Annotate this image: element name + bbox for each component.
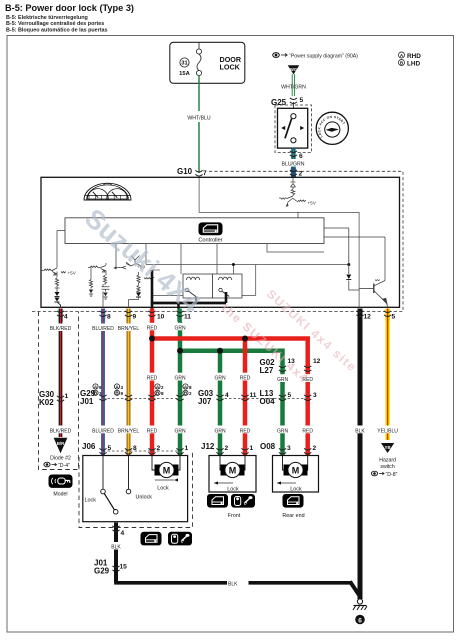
- svg-text:Controller: Controller: [198, 238, 222, 244]
- wire BLK pin12 down to ground: [358, 322, 363, 600]
- controller pin 10 terminal: [150, 309, 165, 322]
- svg-text:G29: G29: [94, 567, 110, 576]
- svg-text:+5V: +5V: [308, 201, 317, 206]
- svg-text:LOCK: LOCK: [220, 63, 241, 72]
- connector J01/G29 pin 15: [94, 559, 127, 576]
- svg-text:3: 3: [121, 385, 124, 390]
- door icon O08 rear: [283, 494, 304, 508]
- svg-text:M: M: [292, 465, 300, 475]
- svg-text:“Power supply diagram” (90A): “Power supply diagram” (90A): [289, 54, 358, 60]
- svg-text:B-5: Verrouillage centralisé d: B-5: Verrouillage centralisé des portes: [6, 21, 104, 27]
- svg-text:Hazard: Hazard: [379, 458, 396, 464]
- svg-text:Diode #2: Diode #2: [50, 456, 71, 462]
- svg-text:6: 6: [358, 617, 362, 624]
- connector G25 pin 5: [271, 97, 304, 107]
- svg-text:YB: YB: [385, 445, 391, 450]
- J12 motor box: [209, 456, 256, 493]
- svg-text:15A: 15A: [179, 71, 190, 77]
- svg-text:4: 4: [64, 314, 68, 321]
- J06 internal wires: [103, 456, 180, 490]
- svg-text:8: 8: [133, 445, 137, 452]
- svg-text:L27: L27: [260, 366, 274, 375]
- LHD legend: [399, 60, 421, 68]
- eye ref D-4: [44, 462, 70, 469]
- svg-text:10: 10: [157, 314, 165, 321]
- svg-text:2: 2: [157, 445, 161, 452]
- switch contacts and blade: [285, 114, 296, 143]
- svg-text:B-5: Bloqueo automático de las: B-5: Bloqueo automático de las puertas: [6, 28, 108, 34]
- svg-text:5: 5: [392, 314, 396, 321]
- connector J12 row: [201, 442, 254, 454]
- instrument cluster icon: [84, 183, 131, 200]
- internal pin9 circuit: [114, 244, 154, 308]
- svg-text:BRN/YEL: BRN/YEL: [118, 428, 140, 434]
- RHD legend: [399, 52, 422, 60]
- ground number 6: [355, 615, 365, 625]
- label BLK under J06: [110, 542, 123, 551]
- internal relay feed line: [146, 244, 349, 296]
- svg-text:“D-8”: “D-8”: [386, 472, 398, 478]
- svg-text:12: 12: [313, 358, 321, 365]
- label RED below pin10: [146, 323, 159, 332]
- svg-text:5: 5: [108, 445, 112, 452]
- connector L13/O04 pins 5 3: [260, 389, 318, 406]
- svg-text:BLU/RED: BLU/RED: [92, 428, 114, 434]
- wire BLU/RED pin8 down: [101, 322, 105, 456]
- svg-text:J12: J12: [201, 442, 215, 451]
- svg-text:B/R: B/R: [57, 441, 64, 446]
- controller pin 8 terminal: [101, 309, 111, 322]
- svg-text:2: 2: [189, 391, 192, 396]
- pin 6 of switch: [290, 151, 303, 160]
- label GRN below pin11: [174, 323, 187, 332]
- door icon under J06: [141, 532, 162, 546]
- connector G02/L27 pins 13 12: [260, 358, 321, 375]
- svg-text:B-5: Power door lock (Type 3): B-5: Power door lock (Type 3): [5, 3, 134, 13]
- svg-text:3: 3: [313, 392, 317, 399]
- svg-text:9: 9: [121, 391, 124, 396]
- svg-text:RHD: RHD: [407, 53, 421, 60]
- junction dots green line: [177, 348, 183, 354]
- svg-text:4: 4: [121, 530, 125, 537]
- svg-text:BLU/RED: BLU/RED: [92, 326, 114, 332]
- ground arrows pin8 area: [89, 290, 93, 294]
- svg-text:BRN/YEL: BRN/YEL: [118, 326, 140, 332]
- svg-text:9: 9: [133, 314, 137, 321]
- J12 motor arrow lock: [214, 481, 239, 492]
- label BLU/GRN: [281, 159, 305, 167]
- O08 lock motor M: [284, 462, 308, 477]
- svg-text:GRN: GRN: [214, 376, 226, 382]
- svg-text:BLK: BLK: [355, 428, 365, 434]
- J06 pin 4 below: [112, 523, 124, 583]
- svg-text:K02: K02: [39, 398, 54, 407]
- junction dots red line: [149, 336, 155, 342]
- triangle YB hazard: [381, 443, 394, 453]
- svg-text:8: 8: [107, 314, 111, 321]
- J06 key cylinder and motor box: [83, 456, 188, 522]
- internal right output: diode chain: [324, 228, 385, 290]
- svg-text:1: 1: [250, 445, 254, 452]
- svg-text:11: 11: [250, 392, 257, 399]
- relay K1 box: [183, 274, 213, 298]
- thick output bus to pins 10 11: [151, 270, 226, 309]
- svg-text:M: M: [163, 465, 171, 475]
- O08 motor box: [273, 456, 319, 493]
- relay K2 box: [213, 274, 243, 298]
- svg-text:7: 7: [203, 170, 207, 177]
- label BRN/YEL upper: [117, 324, 140, 333]
- svg-text:G25: G25: [271, 98, 287, 107]
- wire WHT/BLU from fuse to G10: [198, 76, 200, 173]
- wire BLU/GRN below switch: [291, 148, 295, 168]
- connector J06 row: [82, 442, 189, 454]
- ignition key symbol: [316, 112, 348, 144]
- svg-text:Lock: Lock: [85, 498, 97, 504]
- diode #2 triangle BR: [54, 438, 68, 453]
- svg-text:O08: O08: [260, 442, 276, 451]
- connector O08 row: [260, 442, 317, 454]
- ground bus wire BLK bottom: [114, 571, 360, 597]
- svg-text:BLK: BLK: [111, 545, 121, 551]
- model icon: [49, 475, 73, 488]
- diode at pin9 chain: [136, 286, 141, 300]
- connector G03/J07 pins 4 11: [198, 389, 308, 406]
- svg-text:Front: Front: [228, 513, 241, 519]
- svg-text:Lock: Lock: [157, 486, 169, 492]
- svg-text:Rear end: Rear end: [282, 513, 304, 519]
- J06 motor arrow lock: [155, 478, 178, 491]
- wire RED pin10 down and branch: [152, 322, 308, 456]
- svg-text:WHT/BLU: WHT/BLU: [187, 116, 211, 122]
- svg-text:RED: RED: [147, 376, 158, 382]
- label BLK/RED upper: [49, 324, 72, 333]
- svg-text:31: 31: [181, 61, 187, 67]
- switch direction arrows: [281, 126, 304, 130]
- dashed option box G30: [39, 312, 79, 470]
- J06 lock motor M: [155, 462, 179, 477]
- controller pin 12 terminal: [358, 309, 372, 322]
- svg-text:RED: RED: [147, 428, 158, 434]
- controller pin 9 terminal: [126, 309, 136, 322]
- internal wire from pin7: [199, 178, 359, 308]
- junction dots on feed line: [232, 263, 235, 266]
- fuse box: [170, 42, 245, 83]
- svg-text:M: M: [229, 465, 237, 475]
- controller pin 5 terminal: [385, 309, 395, 322]
- svg-text:GRN: GRN: [277, 377, 289, 383]
- svg-text:O04: O04: [260, 397, 276, 406]
- svg-text:2: 2: [161, 385, 164, 390]
- svg-text:WG: WG: [290, 67, 297, 72]
- label DOOR LOCK: [220, 55, 242, 72]
- relay K1 coil: [187, 277, 200, 280]
- svg-text:2: 2: [313, 445, 317, 452]
- connector G30/K02 pin 1: [39, 390, 69, 407]
- svg-text:G10: G10: [177, 167, 193, 176]
- connector G29/J01 row: [80, 389, 184, 406]
- svg-text:Lock: Lock: [227, 487, 239, 493]
- wire WHT/GRN: [292, 74, 294, 96]
- svg-text:8: 8: [189, 385, 192, 390]
- relay K2 coil: [219, 277, 232, 280]
- diode on x=348.8: [346, 275, 351, 280]
- svg-text:BLU/GRN: BLU/GRN: [281, 161, 304, 167]
- eye ref power supply diagram: [273, 53, 358, 60]
- controller solid box: [41, 177, 400, 307]
- svg-text:12: 12: [364, 314, 372, 321]
- svg-text:Lock: Lock: [290, 487, 302, 493]
- svg-text:2: 2: [299, 171, 303, 178]
- svg-text:switch: switch: [380, 464, 395, 470]
- label Hazard switch: [379, 458, 396, 471]
- connector squiggles at module pins: [57, 311, 391, 317]
- svg-text:RED: RED: [240, 376, 251, 382]
- svg-text:5: 5: [288, 392, 292, 399]
- svg-text:3: 3: [99, 391, 102, 396]
- svg-text:4: 4: [225, 392, 229, 399]
- svg-text:1: 1: [65, 393, 69, 400]
- relay K1 contact: [185, 288, 196, 296]
- controller inner long box: [65, 218, 324, 244]
- controller pin 2 terminal: [290, 168, 303, 179]
- G29/J01 circled pin letters: [93, 384, 192, 396]
- wire BRN/YEL pin9 down: [127, 322, 131, 456]
- triangle WG from power supply: [288, 65, 300, 74]
- svg-text:“D-4”: “D-4”: [58, 463, 70, 469]
- internal +5V regulator circuit at pin 2: [279, 178, 306, 218]
- relay K2 contact: [219, 288, 230, 296]
- svg-text:GRN: GRN: [174, 376, 186, 382]
- svg-text:6: 6: [299, 153, 303, 160]
- svg-text:J07: J07: [198, 397, 212, 406]
- internal pin8 sensing circuit: [88, 263, 110, 308]
- J06 dashed enclosure: [79, 451, 193, 528]
- svg-text:J06: J06: [82, 442, 96, 451]
- svg-text:B-5: Elektrische türverriegelu: B-5: Elektrische türverriegelung: [6, 15, 88, 21]
- svg-text:BLK/RED: BLK/RED: [50, 428, 72, 434]
- svg-text:RED: RED: [302, 428, 313, 434]
- output transistor Q6 to pin 5: [359, 280, 388, 308]
- J12 lock motor M: [221, 462, 245, 477]
- O08 wires into motor: [283, 456, 308, 471]
- key icon J12: [231, 494, 255, 508]
- svg-text:2: 2: [225, 445, 229, 452]
- svg-text:YEL/BLU: YEL/BLU: [377, 428, 398, 434]
- key knob icon under J06: [168, 532, 192, 546]
- svg-text:Unlock: Unlock: [136, 495, 153, 501]
- door lock main switch box: [278, 108, 308, 148]
- diode pair at pin 4: [55, 292, 61, 308]
- svg-text:8: 8: [161, 391, 164, 396]
- controller icon: [199, 222, 223, 235]
- O08 motor arrow lock: [277, 481, 302, 492]
- fuse 31 15A symbol: [196, 42, 201, 83]
- eye ref D-8: [371, 471, 397, 478]
- svg-text:LHD: LHD: [407, 61, 421, 68]
- wire GRN pin11 down and branch: [180, 322, 283, 456]
- controller pin 11 terminal: [177, 309, 191, 322]
- svg-text:RED: RED: [240, 428, 251, 434]
- door icon J12 front: [207, 494, 228, 508]
- svg-text:Model: Model: [53, 492, 67, 498]
- svg-text:BLK/RED: BLK/RED: [50, 326, 72, 332]
- svg-text:1: 1: [185, 445, 189, 452]
- J12 wires into motor: [220, 456, 245, 471]
- svg-text:RED: RED: [147, 325, 158, 331]
- wire BLK/RED pin4 down: [59, 322, 63, 438]
- svg-text:GRN: GRN: [277, 428, 289, 434]
- svg-text:+5V: +5V: [68, 271, 77, 276]
- svg-text:3: 3: [287, 445, 291, 452]
- svg-text:GRN: GRN: [174, 428, 186, 434]
- svg-text:GRN: GRN: [214, 428, 226, 434]
- svg-text:WHT/GRN: WHT/GRN: [281, 85, 306, 91]
- fuse number circle 31: [179, 58, 190, 77]
- controller pin 4 terminal: [59, 309, 68, 322]
- connector G10 pin 7: [177, 167, 207, 177]
- svg-text:BLK: BLK: [228, 582, 238, 588]
- ground symbol: [353, 599, 367, 610]
- svg-text:GRN: GRN: [174, 325, 186, 331]
- svg-text:J01: J01: [80, 397, 94, 406]
- svg-text:9: 9: [99, 385, 102, 390]
- internal left bank: pin4 driver: [41, 231, 65, 293]
- door lock switch dashed enclosure: [275, 105, 312, 153]
- lower labels row: [92, 426, 399, 435]
- svg-text:5: 5: [300, 97, 304, 104]
- mid wire labels row: [146, 373, 315, 383]
- wire YEL/BLU pin5 down: [385, 322, 390, 441]
- label BLK/RED lower: [49, 426, 72, 435]
- controller dashed module boundary: [31, 171, 403, 311]
- label BLU/RED upper: [92, 324, 115, 333]
- J06 key switch contacts: [101, 489, 131, 514]
- svg-text:15: 15: [120, 564, 128, 571]
